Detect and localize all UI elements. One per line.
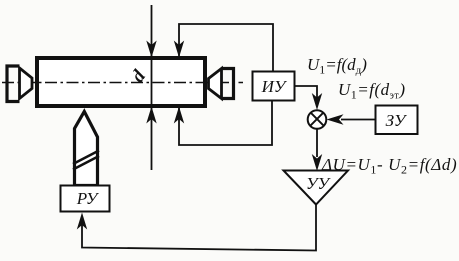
- cutting tool: [75, 112, 98, 186]
- svg-text:ΔU=U1- U2=f(Δd): ΔU=U1- U2=f(Δd): [321, 155, 457, 177]
- svg-text:УУ: УУ: [306, 174, 331, 193]
- arrow up on bracket line at workpiece bottom: [174, 107, 184, 124]
- wire summing junction to УУ: [316, 128, 318, 157]
- left tailstock bracket: [7, 66, 20, 102]
- wire probe line vertical through workpiece: [151, 5, 153, 170]
- block РУ: [61, 186, 110, 212]
- cutting tool hatch lines: [73, 151, 99, 170]
- wire bottom bracket to ИУ: [179, 100, 272, 145]
- summing junction: [308, 110, 327, 129]
- svg-text:ИУ: ИУ: [261, 77, 288, 96]
- svg-text:РУ: РУ: [76, 189, 100, 208]
- arrow left into summing junction: [327, 114, 344, 124]
- block ЗУ: [376, 106, 418, 135]
- block ИУ: [253, 72, 295, 101]
- left center cone: [20, 68, 33, 99]
- arrow down into summing junction: [312, 93, 322, 110]
- right center cone: [209, 69, 222, 99]
- amplifier УУ triangle: [284, 171, 349, 205]
- wire ИУ to summing junction: [295, 86, 318, 98]
- arrow up on probe line at workpiece bottom: [146, 107, 156, 124]
- arrow up into РУ: [77, 213, 87, 230]
- arrow down on probe line at workpiece top: [146, 41, 156, 58]
- wire top bracket to ИУ: [179, 24, 273, 71]
- wire УУ to РУ feedback: [82, 204, 316, 251]
- workpiece: [37, 58, 205, 106]
- arrow down into УУ: [312, 154, 322, 171]
- svg-text:ЗУ: ЗУ: [386, 111, 408, 130]
- right tailstock bracket: [222, 69, 234, 99]
- wire ЗУ to summing junction: [341, 119, 376, 121]
- centerline of workpiece: [2, 82, 243, 84]
- arrow down on bracket line at workpiece top: [174, 41, 184, 58]
